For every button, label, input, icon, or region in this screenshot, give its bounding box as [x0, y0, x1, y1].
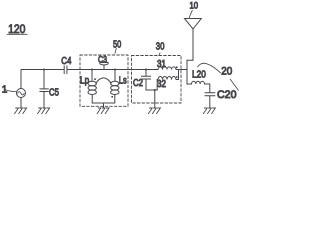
wire C2 top	[145, 70, 147, 77]
svg-text:L20: L20	[192, 68, 206, 80]
inductor Ls	[111, 81, 119, 94]
polarity dot Ls	[111, 96, 113, 98]
wire L20 left	[187, 83, 192, 85]
polarity dot Lp	[94, 78, 96, 80]
wire transformer bottom	[92, 95, 115, 104]
node ground tap	[154, 89, 156, 91]
label 50	[113, 38, 121, 53]
node transformer primary top	[91, 68, 93, 70]
label 20 with leader	[198, 63, 239, 90]
svg-text:1: 1	[2, 84, 8, 95]
dashed box 30	[132, 56, 182, 104]
inductor 32	[158, 77, 176, 80]
antenna 10	[185, 19, 202, 61]
node transformer secondary top	[114, 68, 116, 70]
figure label 120	[7, 22, 27, 36]
svg-text:10: 10	[190, 1, 199, 12]
polarity dot 31	[176, 66, 178, 68]
wire transformer center to ground	[103, 103, 105, 108]
capacitor C3	[100, 63, 109, 70]
label 30	[156, 40, 165, 55]
capacitor C2	[141, 76, 150, 79]
label 1	[2, 84, 17, 95]
inductor L20	[192, 81, 205, 84]
svg-text:C5: C5	[49, 86, 59, 98]
wire L20 right corner	[205, 84, 210, 93]
svg-text:C4: C4	[61, 55, 71, 67]
wire source to ground	[20, 98, 22, 108]
svg-text:C3: C3	[98, 54, 107, 65]
ground below source	[15, 108, 27, 114]
ground below C5	[38, 108, 50, 114]
node source top corner	[20, 70, 22, 89]
wire 32 right end riser	[176, 70, 179, 80]
svg-text:20: 20	[221, 66, 232, 78]
capacitor C4	[64, 66, 67, 74]
dashed box 50	[80, 55, 128, 106]
wire C5 to ground	[43, 92, 45, 108]
source V1	[17, 89, 26, 98]
wire primary drop	[91, 70, 93, 82]
wire C2 bottom	[146, 79, 157, 90]
ground transformer	[97, 108, 109, 114]
ground C20	[203, 108, 215, 114]
wire main line left	[21, 69, 64, 71]
label 10	[189, 1, 198, 18]
svg-text:50: 50	[113, 38, 121, 50]
node C5 junction	[43, 68, 45, 70]
wire secondary drop	[114, 70, 116, 82]
polarity dot 32	[176, 76, 178, 78]
wire 32 left end	[156, 80, 159, 91]
svg-text:32: 32	[157, 79, 166, 90]
node C2 junction	[145, 68, 147, 70]
wire tap to ground	[154, 90, 156, 108]
inductor 31	[158, 67, 176, 70]
wire C5 branch	[43, 70, 45, 89]
svg-text:30: 30	[156, 40, 165, 52]
inductor Lp	[88, 81, 96, 94]
svg-text:Lp: Lp	[80, 74, 89, 86]
wire antenna jog	[187, 60, 193, 84]
ground box30	[148, 108, 160, 114]
capacitor C20	[205, 93, 215, 96]
svg-text:C20: C20	[217, 89, 237, 101]
core arch	[96, 78, 111, 83]
svg-text:Ls: Ls	[119, 74, 127, 86]
capacitor C5	[40, 89, 49, 92]
wire main line middle	[67, 69, 158, 71]
wire C20 to ground	[209, 96, 211, 108]
svg-text:C2: C2	[133, 77, 143, 89]
svg-text:31: 31	[157, 59, 166, 70]
wire main line right of 31	[176, 69, 187, 71]
